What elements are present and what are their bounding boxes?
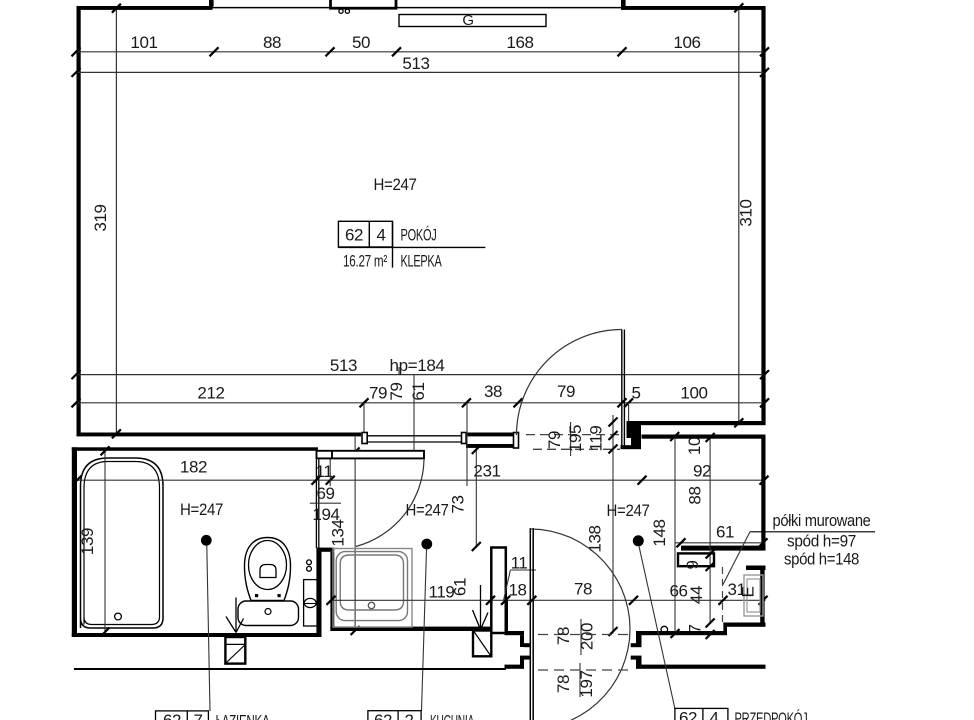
toilet flush button <box>260 565 276 578</box>
svg-text:69: 69 <box>316 484 334 503</box>
label box KUCHNIA <box>368 711 421 720</box>
svg-text:E: E <box>739 586 758 597</box>
svg-text:H=247: H=247 <box>374 175 417 194</box>
svg-text:195: 195 <box>566 425 585 452</box>
svg-text:61: 61 <box>716 523 734 542</box>
svg-text:139: 139 <box>78 528 97 555</box>
svg-text:spód h=97: spód h=97 <box>787 532 856 551</box>
svg-text:hp=184: hp=184 <box>390 356 445 375</box>
svg-text:4: 4 <box>376 226 385 245</box>
wall bridge bathroom-kitchen <box>316 548 334 552</box>
dim line top 1 (101 88 50 168 106) <box>76 51 765 53</box>
svg-text:79: 79 <box>557 382 575 401</box>
vestibule jamb left steps <box>505 600 509 633</box>
kitchen bottom wall <box>330 627 491 631</box>
hallway lower band 1 <box>636 631 727 635</box>
kitchen door leaf board <box>317 451 425 459</box>
dim line vertical right (310) <box>738 8 740 424</box>
dim line 182 / 11 / 231 / 92 (y480) <box>77 479 765 481</box>
svg-text:62: 62 <box>345 226 363 245</box>
bathroom shaft box hatched <box>225 637 245 664</box>
svg-text:5: 5 <box>631 384 640 403</box>
bathroom room dot + leader <box>201 535 212 546</box>
top wall stub up at x211 <box>209 0 214 7</box>
bathroom left wall <box>72 447 77 637</box>
svg-text:310: 310 <box>737 199 756 226</box>
svg-text:78: 78 <box>554 675 573 693</box>
kitchen sink outer <box>333 549 412 628</box>
fraction bar 79/195 <box>570 422 572 456</box>
svg-text:PRZEDPOKÓJ: PRZEDPOKÓJ <box>735 709 808 720</box>
svg-text:9: 9 <box>683 560 702 569</box>
dim line top 2 (513) <box>76 71 765 73</box>
svg-text:101: 101 <box>130 33 157 52</box>
kitchen door swing arc <box>356 460 424 547</box>
door1 jamb cap right <box>462 433 467 444</box>
svg-text:78: 78 <box>554 627 573 645</box>
svg-text:88: 88 <box>686 486 705 504</box>
hp leader line x414 <box>413 375 415 452</box>
bathroom door leaf closed (double line) <box>315 460 317 549</box>
svg-text:88: 88 <box>263 33 281 52</box>
svg-text:61: 61 <box>451 578 470 596</box>
toilet bowl outer <box>245 538 291 601</box>
78/200 dim stack rotated <box>580 619 582 655</box>
top wall stub up at x622 <box>621 0 626 7</box>
78/197 dim stack rotated <box>579 663 581 697</box>
room bottom wall left part <box>77 433 362 437</box>
wall connector at room SE <box>627 421 632 438</box>
svg-text:66: 66 <box>669 582 687 601</box>
svg-text:182: 182 <box>180 458 207 477</box>
extension lines for bottom dims <box>363 403 365 433</box>
svg-text:50: 50 <box>352 33 370 52</box>
svg-text:79: 79 <box>387 382 406 400</box>
svg-text:4: 4 <box>709 709 718 720</box>
svg-text:78: 78 <box>574 580 592 599</box>
svg-text:513: 513 <box>402 54 429 73</box>
svg-text:10: 10 <box>685 437 704 455</box>
toilet tank <box>238 601 299 626</box>
svg-text:200: 200 <box>578 623 597 650</box>
top wall thin line 397-621 <box>397 7 621 9</box>
dim line 134 x355 <box>354 436 356 632</box>
top wall right segment <box>621 6 766 10</box>
svg-text:231: 231 <box>473 462 500 481</box>
hallway dot + leader <box>633 535 644 546</box>
svg-text:62: 62 <box>374 711 392 720</box>
dim line room bottom 2 (212 79 38 79 5 100) <box>76 402 765 404</box>
label box LAZIENKA <box>156 711 209 720</box>
svg-text:2: 2 <box>404 711 413 720</box>
top wall left segment <box>77 6 213 10</box>
niche top band N1 <box>681 546 766 551</box>
svg-text:61: 61 <box>409 382 428 400</box>
kitchen sink basin <box>340 555 403 610</box>
svg-text:H=247: H=247 <box>607 501 650 520</box>
dim line room bottom 1 (513 hp=184) <box>76 374 765 376</box>
door1 jamb cap left <box>362 433 367 444</box>
left wall of room <box>77 6 81 436</box>
top wall thin line 212-330 <box>212 7 330 9</box>
label box PRZEDPOKOJ <box>675 708 728 720</box>
hallway bottom wall right <box>723 623 765 627</box>
svg-text:półki murowane: półki murowane <box>773 511 871 530</box>
door room-to-hall leaf (double line) <box>621 330 623 450</box>
svg-text:79: 79 <box>369 384 387 403</box>
entry door big swing arc <box>530 529 630 720</box>
svg-text:H=247: H=247 <box>180 500 223 519</box>
bathroom door hinge circles <box>307 560 312 565</box>
svg-text:148: 148 <box>650 519 669 546</box>
dashed vertical line x722 <box>722 567 724 625</box>
bathroom east wall lower <box>316 552 321 638</box>
dim chain x710 (10 92 88 9 44 7) <box>709 438 711 624</box>
svg-text:79: 79 <box>545 431 564 449</box>
kitchen dot + leader <box>421 539 432 550</box>
bathtub drain circle <box>115 613 122 620</box>
hallway east wall upper <box>761 439 765 547</box>
vestibule dashed opening lines <box>538 634 634 636</box>
bathtub outer <box>81 458 164 628</box>
extension line x330 <box>329 459 331 486</box>
svg-text:106: 106 <box>673 33 700 52</box>
svg-text:134: 134 <box>329 519 348 546</box>
hollow wall piece 466-513 bottom band <box>466 444 514 448</box>
svg-text:H=247: H=247 <box>406 501 449 520</box>
svg-text:44: 44 <box>687 586 706 604</box>
svg-text:319: 319 <box>91 204 110 231</box>
svg-text:16.27 m²: 16.27 m² <box>343 252 388 271</box>
svg-text:7: 7 <box>193 711 202 720</box>
dim line 73 vertical x476 <box>475 448 477 548</box>
svg-text:38: 38 <box>484 382 502 401</box>
kitchen sink middle <box>336 552 407 621</box>
toilet hinge dots <box>255 594 258 597</box>
right wall of room <box>761 6 765 425</box>
bathtub inner <box>84 462 160 625</box>
svg-text:212: 212 <box>197 384 224 403</box>
electrical box E <box>744 575 763 616</box>
svg-text:POKÓJ: POKÓJ <box>401 226 437 245</box>
toilet bowl inner <box>249 541 287 590</box>
svg-text:100: 100 <box>680 384 707 403</box>
dim line kitchen-hall y600 (119 18 78 66 31) <box>331 599 766 601</box>
hallway top wall (wall B) <box>642 435 766 439</box>
svg-text:168: 168 <box>506 33 533 52</box>
hollow wall piece 466-513 top band <box>466 433 514 437</box>
dim line 148 x675 <box>674 438 676 635</box>
hallway lower band 2 <box>636 665 766 669</box>
vestibule jamb right steps <box>636 631 642 647</box>
svg-text:62: 62 <box>679 709 697 720</box>
door1 head lines <box>368 435 462 437</box>
kitchen shaft box hatched <box>473 631 491 657</box>
G radiator rect <box>399 15 546 27</box>
dim line 61 shelf y543 <box>675 542 766 544</box>
hallway east wall lower <box>760 570 764 623</box>
svg-text:73: 73 <box>449 495 468 513</box>
svg-text:62: 62 <box>163 711 181 720</box>
vestibule entry leaf double line <box>529 528 531 720</box>
svg-text:92: 92 <box>693 462 711 481</box>
masonry shelf rect N2 <box>678 553 714 566</box>
svg-text:ŁAZIENKA: ŁAZIENKA <box>216 712 271 720</box>
svg-text:119: 119 <box>587 426 606 452</box>
door handle circle <box>661 626 668 633</box>
hinge circles oo top <box>339 9 343 13</box>
niche band N3 <box>746 566 766 571</box>
bathroom drain arrow <box>235 598 237 633</box>
door2 jamb cap left <box>514 433 519 449</box>
door room-to-hall swing arc <box>517 330 623 436</box>
step piece left of hallway wall <box>621 445 642 449</box>
top hollow wall stub rect 330-397 <box>331 0 397 8</box>
door2 opening dashed lines <box>526 434 620 436</box>
dim line 139 vertical <box>104 449 106 633</box>
lower edge line y669 <box>74 668 506 670</box>
kitchen drain arrow <box>480 585 482 630</box>
room label box 62|4 POKOJ <box>338 221 392 247</box>
svg-text:spód h=148: spód h=148 <box>784 550 859 569</box>
svg-text:KLEPKA: KLEPKA <box>401 252 443 271</box>
bathroom bottom wall <box>72 633 318 637</box>
svg-text:KUCHNIA: KUCHNIA <box>430 712 475 720</box>
svg-text:G: G <box>462 12 473 29</box>
kitchen west wall <box>330 552 334 631</box>
washbasin pedestal <box>304 580 318 626</box>
svg-text:197: 197 <box>577 670 596 697</box>
room bottom wall right part (wall A) <box>630 421 766 425</box>
kitchen east wall stub <box>491 548 506 634</box>
svg-text:18: 18 <box>508 581 526 600</box>
bathroom top wall <box>72 447 318 451</box>
small dim line x613 with ticks <box>612 415 614 634</box>
dim line vertical left (319) <box>115 8 117 434</box>
svg-text:513: 513 <box>330 356 357 375</box>
kitchen sink drain <box>368 602 374 608</box>
